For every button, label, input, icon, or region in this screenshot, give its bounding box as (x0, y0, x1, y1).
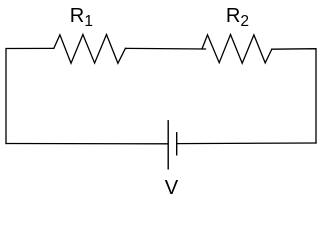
label V (165, 177, 179, 199)
wire (177, 142, 316, 145)
battery V negative plate (167, 120, 169, 169)
resistor R2 (202, 35, 272, 64)
battery V positive plate (176, 132, 178, 155)
label R2 (226, 5, 249, 30)
svg-text:V: V (165, 177, 179, 199)
wire (272, 49, 316, 143)
label R1 (70, 5, 93, 30)
resistor R1 (54, 35, 126, 64)
svg-text:R2: R2 (226, 5, 249, 30)
wire (125, 47, 205, 50)
svg-text:R1: R1 (70, 5, 93, 30)
wire (6, 143, 168, 145)
wire (6, 48, 54, 143)
